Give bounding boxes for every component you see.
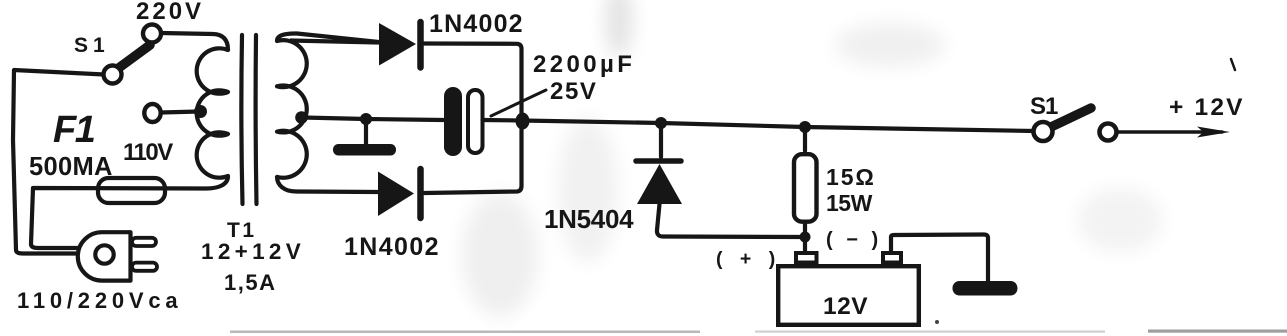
svg-text:15W: 15W [826,190,873,216]
svg-text:S1: S1 [74,34,110,57]
svg-text:F1: F1 [53,109,95,151]
svg-text:( + ): ( + ) [716,248,781,270]
svg-text:S1: S1 [1030,93,1058,120]
svg-text:500MA: 500MA [29,153,113,181]
svg-text:110/220Vca: 110/220Vca [17,288,182,313]
svg-text:1N4002: 1N4002 [344,233,440,261]
svg-text:+ 12V: + 12V [1169,94,1245,121]
svg-text:12V: 12V [823,293,868,320]
svg-text:220V: 220V [136,0,204,25]
svg-text:110V: 110V [123,139,173,166]
svg-text:1,5A: 1,5A [224,270,276,295]
svg-text:( − ): ( − ) [826,229,882,251]
svg-text:15Ω: 15Ω [826,164,876,190]
svg-text:12+12V: 12+12V [201,239,305,264]
svg-text:25V: 25V [550,78,598,105]
svg-text:2200µF: 2200µF [533,51,635,78]
svg-text:1N5404: 1N5404 [544,204,634,234]
svg-text:1N4002: 1N4002 [429,10,524,38]
